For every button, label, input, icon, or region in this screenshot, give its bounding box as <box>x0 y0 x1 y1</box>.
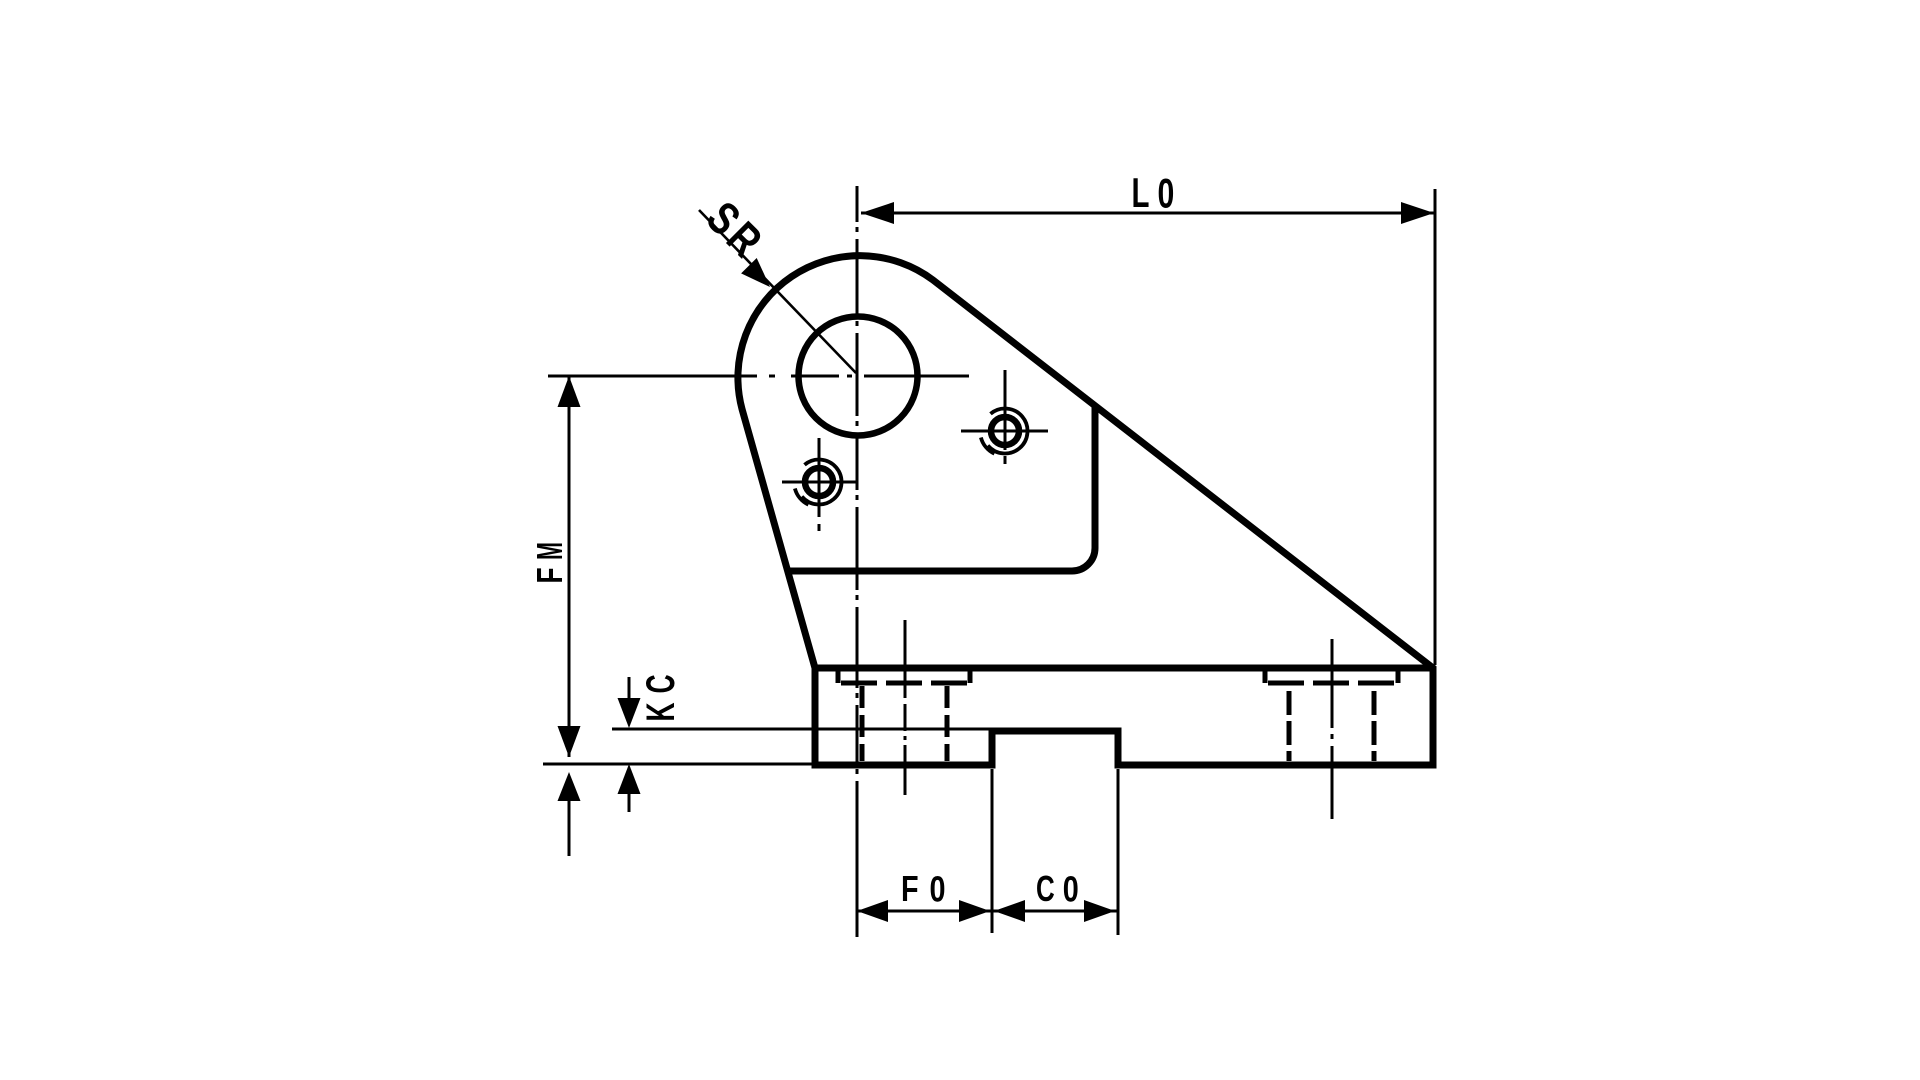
svg-text:0: 0 <box>930 868 946 909</box>
svg-text:0: 0 <box>1158 170 1175 217</box>
svg-text:M: M <box>530 542 570 560</box>
svg-text:F: F <box>901 868 919 909</box>
svg-text:C: C <box>1036 869 1055 909</box>
svg-text:K: K <box>639 702 684 721</box>
svg-text:F: F <box>529 567 570 583</box>
svg-text:L: L <box>1132 169 1150 217</box>
svg-text:0: 0 <box>1063 868 1079 909</box>
svg-text:C: C <box>639 674 684 693</box>
